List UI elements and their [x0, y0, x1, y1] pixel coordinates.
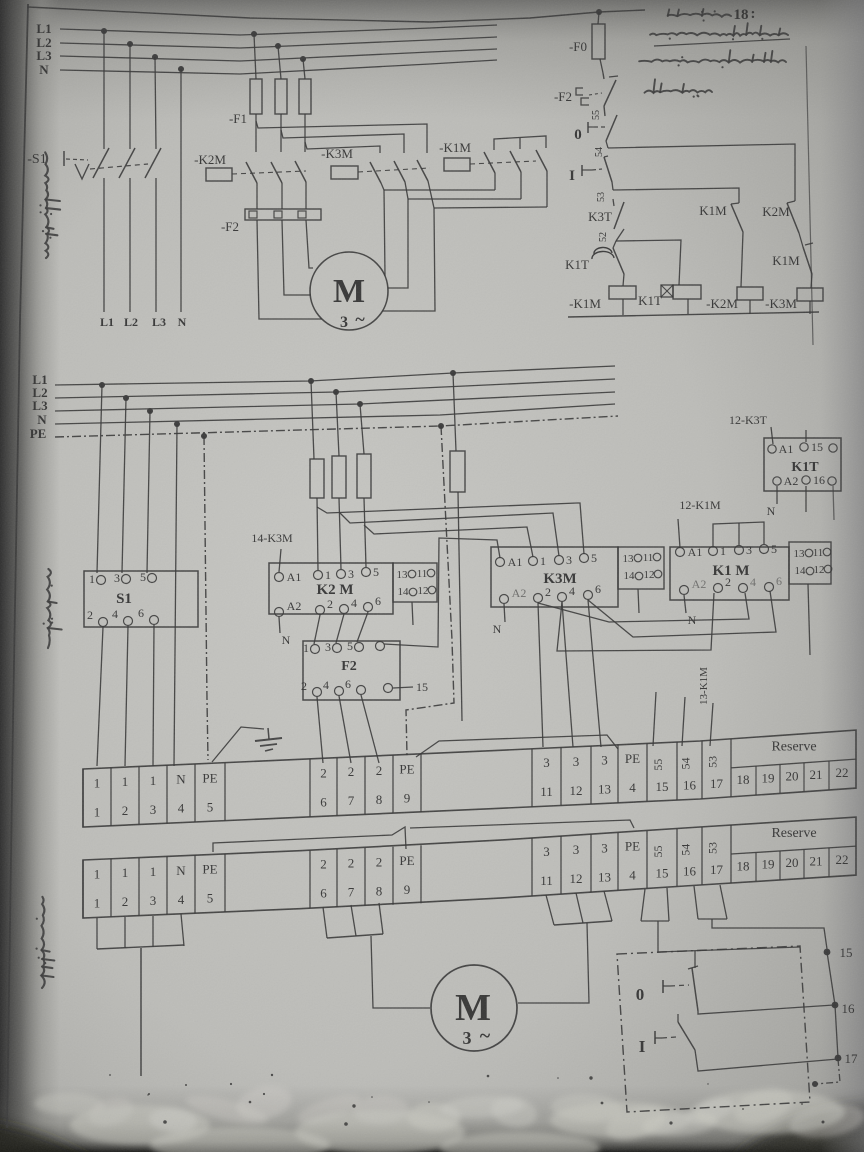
control bottom rail: [568, 312, 819, 317]
coil -K3M: [797, 288, 823, 301]
K1M terminal 1: [709, 547, 718, 556]
side label: naqshe montage (Farsi, rotated): [43, 569, 62, 648]
strip X1 (external) divider x=195: [194, 855, 196, 913]
fuse F1 pole1: [250, 79, 262, 114]
wire S1 pole2 to bottom: [129, 178, 131, 312]
wire L3 mid line: [55, 392, 615, 411]
wire branch to K1M contact: [613, 188, 739, 203]
thermal overload F2 box: [245, 209, 321, 220]
F2 heater 2: [274, 211, 282, 218]
K1T terminal 15b: [829, 444, 837, 452]
strip X1 (external) divider x=647: [646, 830, 648, 888]
wire K1M pole1 down: [494, 173, 496, 190]
wire bus2 to K3M-3: [339, 512, 559, 556]
contactor K3M pole3 blade: [417, 160, 428, 181]
strip X1 (montage) reserve divider 756: [755, 766, 757, 795]
strip X1 (montage) divider x=139: [138, 767, 140, 825]
wire L2 to fuse2: [336, 392, 339, 456]
K3M terminal 5: [580, 554, 589, 563]
motor M2 circle: [431, 965, 517, 1051]
coil K1T box: [673, 285, 701, 299]
white-out smudges at page bottom: [34, 1081, 864, 1152]
K2M N stub: [279, 617, 280, 633]
wire branch to K2M contact: [608, 144, 795, 201]
fuse mid 1: [310, 459, 324, 498]
wire PE mid line (dash-dot): [55, 416, 618, 437]
cable comb under strip2 cells 1-4: [96, 918, 98, 949]
button I (start) blade: [677, 1014, 679, 1022]
terminal strip X1 (external) outline: [83, 817, 856, 918]
node L1 to F fuse group: [308, 378, 314, 384]
wire L2 to fuse F1-2: [278, 46, 281, 79]
wire F1-2 crossover to K3M pole2: [281, 130, 404, 153]
strip X1 (montage) divider x=310: [309, 759, 311, 817]
wire bus1 to K3M-5: [317, 503, 584, 554]
wire L1 mid line: [55, 366, 615, 385]
switch S1 pole 1 blade: [93, 148, 109, 178]
K1T stub above 15: [805, 430, 807, 442]
NC thermal contact -F2 blade: [603, 73, 604, 79]
coil -K1M: [609, 286, 636, 299]
strip X1 (montage) reserve divider 829: [828, 761, 830, 790]
button 0 plunger: [587, 122, 589, 133]
strip X1 (montage) reserve divider 780: [779, 764, 781, 793]
contactor K2M pole3 blade: [295, 161, 306, 182]
terminal strip X1 (montage) outline: [83, 730, 856, 827]
strip X1 (external) divider x=83: [82, 860, 84, 918]
switch S1 pole 2 blade: [119, 148, 135, 178]
wire K3M pole1 down: [381, 183, 384, 190]
wire S1-2 to strip cell1: [97, 627, 103, 766]
K1M terminal 2: [714, 584, 723, 593]
wire S1-4 to strip cell2: [125, 626, 128, 766]
wire K3M-4 to strip 12: [562, 602, 573, 747]
bracket under strip2 cell 17: [694, 886, 698, 919]
strip X1 (external) divider x=731: [730, 825, 732, 883]
wire bus3 to K3M-1: [364, 525, 533, 557]
K2M terminal 3: [337, 570, 346, 579]
contactor box K1M: [670, 547, 789, 600]
K2M aux contact box: [393, 563, 437, 602]
strip X1 (montage) divider x=618: [617, 745, 619, 803]
wire PE right drop (dash-dot): [406, 426, 454, 756]
strip X1 (external) reserve divider 756: [755, 852, 757, 881]
wire N vertical down: [180, 69, 182, 312]
wire K1M2 to coil -K3M: [811, 274, 812, 288]
strip X1 (montage) divider x=83: [82, 769, 84, 827]
control fuse mid: [450, 451, 465, 492]
wire F2-6 to strip cell8: [361, 695, 379, 763]
node L1 to S1: [99, 382, 105, 388]
K1T terminal 16: [802, 476, 810, 484]
button I plunger: [581, 165, 583, 176]
K1M terminal A1: [676, 548, 685, 557]
bracket under strip2 cells 6-8: [323, 907, 327, 938]
K3M terminal 6: [584, 591, 593, 600]
strip X1 (montage) divider x=731: [730, 739, 732, 797]
K1M terminal 5: [760, 545, 769, 554]
wire L3 to S1-5: [147, 411, 150, 573]
contactor box K2M: [269, 563, 393, 614]
wire F2-2 to motor: [282, 220, 311, 295]
wire L1 power line: [60, 25, 497, 35]
timer box K1T: [764, 438, 841, 491]
node L2 tap for S1: [127, 41, 133, 47]
-F2 trip linkage: [576, 88, 583, 95]
wire S1 pole3 to bottom: [155, 178, 157, 312]
strip X1 (external) divider x=677: [676, 829, 678, 887]
wire after I junction: [612, 182, 613, 190]
wire tie K3M-6 to K1M-6: [588, 591, 776, 637]
wire N down past S1: [174, 424, 177, 766]
node L1 to control fuse: [450, 370, 456, 376]
contact K2M blade: [787, 201, 795, 203]
strip X1 (montage) divider x=365: [364, 756, 366, 814]
K2M terminal 5: [362, 568, 371, 577]
earth symbol: [268, 728, 269, 739]
ground tap diagonal: [212, 727, 264, 762]
wire F2-4 to strip cell7: [339, 696, 351, 763]
strip X1 (external) divider x=591: [590, 834, 592, 892]
wire coil -K2M to rail: [749, 300, 751, 314]
F2 terminal 95: [376, 642, 385, 651]
wire I to node 17: [695, 1050, 838, 1071]
contactor box K3M: [491, 547, 618, 607]
strip X1 (montage) divider x=195: [194, 764, 196, 822]
wire L1 to fuse1: [311, 381, 314, 459]
wire 14-K3M stub to K2M A1: [279, 549, 281, 572]
fuse mid 3: [357, 454, 371, 498]
K3M terminal 2: [534, 594, 543, 603]
K1T terminal 16b: [828, 477, 836, 485]
fuse mid 2: [332, 456, 346, 498]
wire delta tie 1: [384, 189, 495, 191]
K1M terminal 3: [735, 546, 744, 555]
wire to motor2 left: [371, 936, 430, 1008]
K1T 16 stub down: [805, 486, 807, 512]
strip X1 (montage) divider x=532: [531, 749, 533, 807]
wire feed to F0: [598, 12, 599, 24]
wire delta tie 2: [408, 198, 521, 200]
K1T delay symbol: [594, 247, 612, 254]
switch S1 actuator: [63, 151, 65, 166]
K1T terminal A1: [768, 445, 776, 453]
node L3 to S1: [147, 408, 153, 414]
page frame right border: [806, 46, 813, 345]
strip X1 (external) divider x=139: [138, 858, 140, 916]
wire stop button stub: [694, 951, 696, 968]
K1M aux box: [789, 542, 831, 584]
strip X1 (montage) divider x=337: [336, 758, 338, 816]
button I plunger: [654, 1031, 656, 1044]
wire F2-1 to motor: [257, 220, 322, 319]
wire L3 power line: [60, 49, 497, 61]
wire F2-3 to motor: [306, 220, 313, 268]
F2 heater 3: [298, 211, 306, 218]
wire control fuse down: [458, 492, 462, 721]
motor M1 circle: [310, 252, 388, 330]
wire 0 to node 16: [698, 1005, 834, 1014]
K1T terminal 15: [800, 443, 808, 451]
dash-dot tail below node 17: [816, 1059, 840, 1084]
wire K2M3 to F2: [305, 182, 307, 209]
K1M N stub: [684, 595, 686, 613]
K3M aux stub: [638, 589, 639, 613]
contactor K1M pole3 blade: [536, 150, 547, 171]
switch box S1: [84, 571, 198, 627]
wire L1 drop to S1: [103, 31, 105, 149]
bracket under strip2 cells 15-16: [641, 889, 645, 921]
header line 2 (Farsi): [639, 50, 786, 68]
pushbutton box (dash-dot): [617, 946, 810, 1112]
strip X1 (external) divider x=337: [336, 849, 338, 907]
strip X1 (external) divider x=618: [617, 832, 619, 890]
coil K1T X-box: [661, 285, 673, 297]
wire L3 to fuse F1-3: [303, 59, 305, 79]
contactor K1M dashed link: [470, 161, 536, 164]
strip X1 (external) divider x=225: [224, 854, 226, 912]
wire K3M pole2 down: [405, 182, 408, 199]
wire K3M-2 to strip 11: [538, 603, 543, 747]
node 16: [832, 1002, 839, 1009]
node N tap: [178, 66, 184, 72]
bracket under strip2 cells 11-13: [546, 895, 554, 925]
K2M terminal 1: [314, 571, 323, 580]
coil -K2M: [737, 287, 763, 300]
wire K1M contact to coil -K2M: [741, 232, 743, 287]
wire 12-K3T stub to K1T A1: [771, 427, 773, 444]
K2M terminal A1: [275, 573, 284, 582]
K1M aux stub down: [808, 584, 810, 655]
contactor K2M pole2 blade: [271, 162, 282, 183]
button 0 (stop) blade: [692, 968, 698, 1011]
contactor K3M pole2 blade: [394, 161, 405, 182]
strip X1 (external) reserve mid line: [731, 846, 856, 854]
wire K3M-6 to strip 13: [588, 600, 601, 747]
strip X1 (external) divider x=561: [560, 836, 562, 894]
K1T right stub: [833, 486, 834, 520]
wire branch to K1T coil: [616, 240, 681, 285]
header line 3 (Farsi): [645, 79, 713, 97]
K1T terminal A2: [773, 477, 781, 485]
switch S1 pole 3 blade: [145, 148, 161, 178]
strip X1 (montage) divider x=561: [560, 747, 562, 805]
strip X1 (montage) reserve divider 804: [803, 763, 805, 792]
wire strip2 PE5 to PE9 link: [213, 827, 406, 852]
wire tie K3M-4 to K1M-2: [557, 593, 714, 651]
wire 12-K1M stub to K1M A1: [678, 519, 680, 548]
fuse F1 pole3: [299, 79, 311, 114]
wire PE9 to PE4 bus: [416, 735, 618, 757]
strip X1 (montage) divider x=677: [676, 742, 678, 800]
contactor K1M pole2 blade: [510, 151, 521, 172]
wire K2M-6 to F2-5: [357, 612, 368, 642]
button 0 (stop) blade: [604, 106, 605, 116]
contactor K3M operator box: [331, 166, 358, 179]
fuse F1 pole2: [275, 79, 287, 114]
F2 heater 1: [249, 211, 257, 218]
timed contact K1T blade: [613, 241, 616, 248]
wire N mid line: [55, 404, 615, 424]
node L1 tap for F1: [251, 31, 257, 37]
strip X1 (montage) reserve mid line: [731, 759, 856, 768]
contactor K3M dashed link: [358, 168, 430, 172]
contactor K2M operator box: [206, 168, 232, 181]
strip X1 (external) divider x=702: [701, 827, 703, 885]
strip X1 (external) divider x=421: [420, 845, 422, 903]
node N drop: [174, 421, 180, 427]
wire 16 into strip1-16: [682, 697, 685, 746]
K3M terminal 4: [558, 593, 567, 602]
wire strip to node 15: [712, 919, 827, 949]
wire K2M2 to F2: [281, 183, 283, 209]
node L2 to S1: [123, 395, 129, 401]
K1T A2 stub with N: [776, 486, 778, 504]
K1M terminal 4: [739, 584, 748, 593]
strip X1 (external) divider x=393: [392, 847, 394, 905]
node L3 tap for S1: [152, 54, 158, 60]
strip X1 (montage) divider x=393: [392, 755, 394, 813]
node PE drop left: [201, 433, 207, 439]
wire strip2 PE9 to PE4 link: [410, 820, 634, 828]
node L2 to fuse: [333, 389, 339, 395]
side label: naqshe masir jaryan (Farsi, rotated): [39, 152, 60, 258]
K2M terminal A2: [275, 608, 284, 617]
wire K1T contact to coil -K1M: [623, 274, 624, 286]
contact K1M2 blade (NC): [803, 247, 812, 274]
K2M terminal 4: [340, 605, 349, 614]
K3M aux box: [618, 547, 664, 589]
node 17: [835, 1055, 842, 1062]
wire coil -K1M to rail: [622, 299, 624, 315]
strip X1 (external) divider x=111: [110, 859, 112, 917]
contactor K2M pole1 blade: [246, 162, 257, 183]
K1M terminal 6: [765, 583, 774, 592]
strip X1 (external) reserve divider 829: [828, 848, 830, 877]
strip X1 (montage) divider x=702: [701, 741, 703, 799]
wire after 0 button junction: [606, 141, 608, 148]
wire coil -K3M to rail: [809, 301, 811, 314]
wire F2-2 to strip cell6: [317, 697, 323, 763]
wire F1-1 to K2M pole1: [255, 114, 257, 152]
strip X1 (montage) divider x=421: [420, 754, 422, 812]
strip X1 (external) reserve divider 804: [803, 849, 805, 878]
button I (start) blade: [604, 156, 608, 157]
wire tie K3M-2 to K1M-4: [538, 593, 749, 622]
strip X1 (external) divider x=365: [364, 848, 366, 906]
side label: naqshe khareji (Farsi, rotated): [35, 897, 54, 988]
K3M N stub: [504, 604, 505, 622]
strip X1 (montage) divider x=647: [646, 743, 648, 801]
K2M terminal 6: [364, 603, 373, 612]
wire L2 to S1-3: [122, 398, 126, 573]
wire F2-95 up to K3M A1: [384, 538, 500, 647]
wire node15-16-17 vertical: [827, 952, 838, 1058]
wire K1M pole2 down: [520, 172, 522, 199]
wire L1 to fuse F1-1: [254, 34, 256, 79]
K2M terminal 2: [316, 606, 325, 615]
wire L2 power line: [60, 37, 497, 48]
strip X1 (montage) divider x=225: [224, 763, 226, 821]
wire F0 to F2 contact: [600, 59, 603, 73]
wire S1 pole1 to bottom: [103, 178, 105, 312]
wire K2M-2 to F2-1: [314, 615, 320, 644]
wire 15 into strip1-15: [653, 692, 656, 746]
wire L2 drop to S1: [129, 44, 131, 149]
wire F1-3 to K2M pole3: [304, 114, 306, 152]
node L2 tap for F1: [275, 43, 281, 49]
wire F1-2 to K2M pole2: [280, 114, 282, 152]
strip X1 (montage) divider x=591: [590, 746, 592, 804]
wire after K3T: [616, 229, 624, 241]
supply cable drop: [140, 948, 142, 1076]
wire L2 mid line: [55, 379, 615, 398]
contactor K3M pole1 blade: [370, 162, 381, 183]
K1M star bridge: [713, 522, 764, 546]
strip X1 (external) divider x=532: [531, 838, 533, 896]
wire K2M to K1M2: [799, 233, 803, 247]
K3M terminal 3: [555, 556, 564, 565]
F2 terminal 96 with wire 15: [384, 684, 393, 693]
page frame left border: [7, 4, 28, 1128]
wire L3 to fuse3: [360, 404, 364, 454]
fuse -F0: [592, 24, 605, 59]
contactor K1M pole1 blade: [484, 152, 495, 173]
K3M terminal A1: [496, 558, 505, 567]
wire K1M top bridge: [494, 136, 546, 150]
wire K3M pole3 down: [428, 181, 434, 208]
wire fuse1 to K2M-1: [317, 498, 318, 570]
K3M terminal 1: [529, 557, 538, 566]
contactor K2M dashed link: [232, 171, 306, 174]
node L1 tap for S1: [101, 28, 107, 34]
wire delta tie 3: [434, 207, 547, 208]
node L3 to fuse: [357, 401, 363, 407]
contactor K1M operator box: [444, 158, 470, 171]
wire to motor2 right: [518, 923, 589, 1003]
strip X1 (external) reserve divider 780: [779, 851, 781, 880]
wire N power line: [60, 60, 497, 74]
thermal relay box F2 mid: [303, 641, 400, 700]
wire K1M pole3 down: [546, 171, 548, 207]
strip X1 (montage) divider x=167: [166, 765, 168, 823]
wire F1-3 crossover to K3M pole1: [305, 142, 380, 153]
node PE right drop: [438, 423, 444, 429]
button 0 plunger: [662, 980, 664, 993]
header text: lesson 18 (Farsi): [668, 9, 731, 22]
node L3 tap for F1: [300, 56, 306, 62]
wire fuse2 to K2M-3: [339, 498, 341, 569]
strip X1 (external) divider x=167: [166, 856, 168, 914]
wire L3 drop to S1: [155, 57, 156, 149]
wire K2M1 to F2: [256, 183, 258, 209]
wire 17 into strip1-17: [710, 703, 713, 746]
K2M aux stub down: [412, 602, 413, 625]
wire tie1 to motor: [384, 190, 385, 276]
wire tie2 to motor: [388, 199, 408, 288]
wire coil K1T to rail: [687, 299, 689, 314]
header line 1 (Farsi) with underline: [650, 23, 788, 40]
contact K3T blade: [613, 199, 614, 206]
wire fuse3 to K2M-5: [364, 498, 366, 567]
K1M terminal A2: [680, 586, 689, 595]
node 15: [824, 949, 831, 956]
page frame top border / control feed line from L1: [28, 7, 645, 22]
wire K2M-4 to F2-3: [336, 614, 344, 643]
wire tie3 to motor: [382, 208, 435, 311]
wire L1 to S1-1: [97, 385, 102, 573]
K3M terminal A2: [500, 595, 509, 604]
